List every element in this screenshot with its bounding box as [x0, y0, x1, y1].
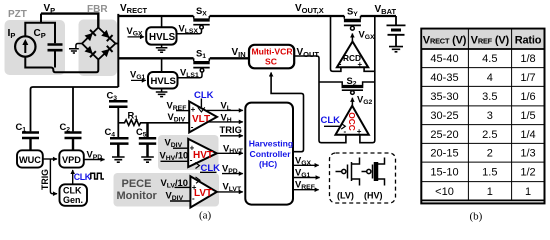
svg-text:-: - [190, 156, 193, 165]
wire rail2 to HVLS2 [161, 58, 163, 72]
svg-text:1/7: 1/7 [520, 72, 535, 84]
wire RCD left sense [331, 16, 341, 71]
svg-text:4: 4 [487, 72, 493, 84]
HVLS box 1 [146, 27, 176, 44]
svg-text:PZT: PZT [8, 9, 27, 20]
wire TRIG into HC [220, 135, 243, 137]
svg-text:TRIG: TRIG [40, 169, 50, 190]
svg-text:Controller: Controller [250, 149, 292, 159]
svg-text:CLK: CLK [74, 172, 92, 182]
svg-text:HVLS: HVLS [151, 76, 176, 87]
wire VP rail [41, 14, 98, 28]
svg-text:1/8: 1/8 [520, 53, 535, 65]
svg-text:3.5: 3.5 [482, 91, 497, 103]
clock waveform glyph [91, 173, 104, 179]
svg-text:-: - [344, 127, 347, 136]
svg-text:CLK: CLK [194, 90, 214, 101]
WUC box [17, 150, 43, 167]
wire C3 to R1 node [117, 107, 119, 138]
PECE monitor gray block lower [114, 173, 220, 207]
wire rail2 VG1 row [118, 57, 249, 59]
svg-text:HVT: HVT [193, 150, 213, 161]
svg-text:1: 1 [525, 186, 531, 198]
capacitor C4 [110, 138, 129, 156]
svg-text:1: 1 [487, 186, 493, 198]
svg-text:TRIG: TRIG [220, 124, 242, 135]
svg-text:Multi-VCR: Multi-VCR [252, 47, 294, 57]
svg-text:-: - [192, 194, 195, 203]
transistor HV [362, 158, 385, 186]
HC feedback hook to SC [271, 73, 303, 152]
svg-text:PECE: PECE [122, 178, 152, 190]
wire VHVT out [217, 152, 243, 154]
ground under C4 [112, 157, 125, 162]
svg-text:+: + [191, 105, 196, 114]
HVLS box 2 [148, 72, 178, 89]
svg-text:1/3: 1/3 [520, 148, 535, 160]
wire VREF stub [176, 110, 189, 112]
clock wedge HVT [195, 163, 200, 169]
Multi-VCR SC box [249, 45, 294, 69]
svg-text:HVLS: HVLS [149, 32, 176, 43]
current source IP circle [15, 36, 35, 56]
table (b) [421, 29, 544, 204]
comparator RCD [337, 42, 368, 68]
svg-text:45-40: 45-40 [430, 53, 458, 65]
switch S2 [319, 82, 375, 94]
clock wedge LVT [196, 177, 201, 183]
wire VHV/10 stub [161, 160, 189, 162]
svg-text:LVT: LVT [194, 188, 212, 199]
VPD box [59, 150, 84, 167]
PZT gray block [5, 20, 66, 75]
wire WUC to VPD [43, 158, 57, 160]
wire CLK Gen to VPD arrow [72, 170, 74, 184]
svg-text:(LV): (LV) [337, 191, 354, 201]
ground under C5 [141, 157, 154, 162]
wire PZT loop [25, 23, 98, 73]
svg-text:+: + [357, 127, 362, 136]
wire mid horizontal bus [31, 87, 119, 131]
svg-text:1/6: 1/6 [520, 91, 535, 103]
transistor LV [336, 158, 360, 186]
capacitor CP [48, 45, 63, 51]
svg-text:(HC): (HC) [259, 159, 277, 169]
wire VBAT corner [395, 16, 397, 25]
clock wedge OCC [341, 124, 345, 130]
svg-text:1/4: 1/4 [520, 129, 535, 141]
svg-text:(HV): (HV) [364, 191, 383, 201]
svg-text:CLK: CLK [63, 186, 82, 196]
wire CLK into OCC [324, 125, 341, 127]
svg-text:Ratio: Ratio [515, 34, 542, 46]
wire OCC minus leg / VOUT bottom loop [319, 80, 346, 143]
svg-text:-: - [339, 60, 342, 69]
svg-text:+: + [192, 183, 197, 192]
CLK Gen box [60, 184, 88, 206]
wire VLVT out [217, 191, 243, 193]
capacitor C5 [139, 123, 156, 157]
svg-text:3: 3 [487, 110, 493, 122]
ground under HVLS1 [156, 45, 168, 53]
svg-text:Harvesting: Harvesting [249, 139, 293, 149]
wire RCD right sense / right vertical [360, 16, 375, 143]
diode D3 bottom-left [84, 46, 95, 57]
svg-text:(b): (b) [470, 211, 483, 223]
svg-text:+: + [190, 144, 195, 153]
svg-text:35-30: 35-30 [430, 91, 458, 103]
HC box [245, 103, 293, 205]
wire CLK stub into VLT [200, 99, 202, 108]
svg-text:Monitor: Monitor [117, 190, 158, 202]
capacitor C3 [109, 101, 128, 106]
svg-text:1/2: 1/2 [520, 167, 535, 179]
comparator LVT [190, 176, 216, 207]
svg-text:OCC: OCC [347, 112, 357, 130]
wire VRECT rail [118, 15, 396, 17]
svg-text:VLT: VLT [192, 114, 210, 125]
svg-text:+: + [358, 60, 363, 69]
switch SY [344, 16, 361, 30]
svg-text:25-20: 25-20 [430, 129, 458, 141]
capacitor C1 [22, 133, 39, 151]
wire VRECT to HVLS1 [161, 16, 163, 27]
comparator HVT [188, 139, 217, 167]
capacitor C2 [65, 133, 82, 151]
wire VRECT vertical [117, 14, 119, 87]
svg-text:15-10: 15-10 [430, 167, 458, 179]
FBR gray block [79, 20, 118, 77]
svg-text:VRECT (V): VRECT (V) [423, 34, 467, 46]
svg-text:1.5: 1.5 [482, 167, 497, 179]
svg-text:20-15: 20-15 [430, 148, 458, 160]
resistor R1 [118, 120, 189, 126]
svg-text:WUC: WUC [19, 155, 41, 165]
wire VDIV stub LVT [170, 200, 190, 202]
diode D4 bottom-right [101, 46, 112, 57]
svg-text:-: - [191, 123, 194, 132]
svg-text:VPD: VPD [62, 155, 81, 165]
wire S2 gate arrow VG2 [351, 98, 353, 106]
node VP tick [40, 14, 42, 23]
wire VLV/10 stub [175, 186, 191, 188]
wire VOUT [294, 56, 319, 80]
svg-text:VREF (V): VREF (V) [471, 34, 510, 46]
svg-text:CLK: CLK [321, 115, 341, 126]
wire SY gate arrow VGX [351, 34, 353, 42]
ground at FBR left [69, 44, 82, 54]
wire VPD into HC [222, 173, 243, 175]
svg-text:(a): (a) [199, 210, 212, 222]
switch SX [177, 16, 210, 34]
svg-text:<10: <10 [435, 186, 454, 198]
FBR bridge diamond [82, 28, 116, 60]
wire VH out [207, 121, 243, 123]
battery VBAT [387, 25, 406, 51]
wire TRIG down to CLK Gen [50, 159, 57, 194]
switch S1 [178, 58, 210, 77]
svg-text:Gen.: Gen. [63, 195, 83, 205]
comparator VLT [189, 101, 217, 132]
ground under HVLS2 [156, 89, 168, 97]
PECE monitor gray block upper [158, 135, 219, 170]
clock wedge VLT [198, 107, 205, 112]
svg-text:SC: SC [265, 57, 277, 67]
diode D1 top-left [84, 30, 95, 41]
svg-text:30-25: 30-25 [430, 110, 458, 122]
comparator OCC [336, 106, 369, 135]
svg-text:2: 2 [487, 148, 493, 160]
wire VDIV stub HVT [173, 147, 188, 149]
svg-text:4.5: 4.5 [482, 53, 497, 65]
svg-text:1/5: 1/5 [520, 110, 535, 122]
svg-text:2.5: 2.5 [482, 129, 497, 141]
svg-text:40-35: 40-35 [430, 72, 458, 84]
diode D2 top-right [101, 30, 112, 41]
wire VL out [207, 109, 243, 111]
dashed LV HV box [330, 153, 396, 203]
wire FBR right vertex to VRECT vertical [116, 43, 119, 45]
